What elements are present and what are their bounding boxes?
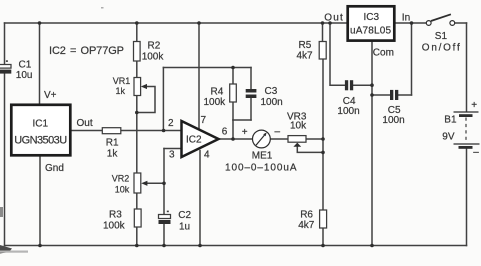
- svg-text:10k: 10k: [290, 121, 307, 132]
- svg-text:100–0–100uA: 100–0–100uA: [225, 163, 297, 174]
- junction V+ on top rail: [38, 21, 42, 25]
- wire left rail lower segment: [4, 74, 6, 246]
- wire R3 to rail: [136, 227, 138, 246]
- svg-text:uA78L05: uA78L05: [350, 25, 391, 36]
- wire In down to C5: [411, 23, 413, 95]
- resistor R2: [134, 41, 165, 63]
- wire battery negative lead: [466, 149, 468, 246]
- wire R6 to rail: [322, 228, 324, 246]
- wire R2 to VR1: [136, 61, 138, 78]
- wire V+ to IC1: [39, 23, 41, 104]
- svg-text:C1: C1: [19, 60, 32, 71]
- wire VR1 to VR2: [136, 96, 138, 174]
- svg-text:IC2: IC2: [186, 135, 202, 146]
- wire Com to C5: [372, 94, 390, 96]
- potentiometer VR3: [287, 112, 307, 147]
- svg-text:1u: 1u: [179, 221, 190, 232]
- svg-text:100n: 100n: [382, 115, 404, 126]
- meter ME1: [225, 127, 297, 174]
- junction Gnd on bottom rail: [38, 244, 42, 248]
- wire IC1 Gnd to rail: [39, 157, 41, 246]
- svg-text:3: 3: [169, 150, 175, 161]
- scan speck top: [101, 7, 104, 9]
- potentiometer VR2: [112, 173, 148, 195]
- wire VR3 wiper drop: [297, 147, 323, 153]
- junction pin7 on top rail: [197, 21, 201, 25]
- svg-text:R3: R3: [109, 210, 122, 221]
- svg-text:100k: 100k: [204, 97, 227, 108]
- wire top supply rail: [5, 22, 348, 24]
- svg-text:R4: R4: [211, 87, 224, 98]
- wire C3 bottom: [250, 98, 252, 120]
- svg-text:4k7: 4k7: [297, 51, 314, 62]
- svg-text:S1: S1: [435, 31, 448, 42]
- wire C5 to In line: [398, 94, 411, 96]
- wire IC3 Com down to rail: [371, 42, 373, 246]
- IC1 UGN3503U: [11, 90, 93, 174]
- potentiometer VR1: [113, 76, 147, 96]
- svg-text:ME1: ME1: [252, 151, 273, 162]
- svg-text:VR1: VR1: [113, 76, 131, 86]
- junction Com on bottom rail: [370, 244, 374, 248]
- resistor R1: [102, 128, 121, 160]
- wire R5 to R6 node line: [322, 59, 324, 210]
- wire switch to battery corner: [455, 22, 467, 24]
- junction R6 on bottom rail: [321, 244, 325, 248]
- wire C2 to rail: [163, 224, 165, 246]
- svg-text:10k: 10k: [115, 185, 130, 195]
- capacitor C1: [0, 60, 32, 82]
- svg-text:R2: R2: [148, 41, 161, 52]
- svg-text:In: In: [402, 12, 410, 23]
- svg-text:9V: 9V: [442, 131, 455, 142]
- wire meter to VR3: [270, 138, 288, 140]
- resistor R5: [297, 40, 327, 62]
- resistor R4: [204, 84, 237, 108]
- capacitor C2: [159, 210, 192, 233]
- junction In line: [410, 21, 414, 25]
- svg-text:1k: 1k: [107, 149, 119, 160]
- regulator IC3 uA78L05: [324, 6, 410, 58]
- svg-text:+: +: [242, 127, 248, 138]
- wire op-amp output to meter: [219, 138, 253, 140]
- junction C4 on top rail: [328, 21, 332, 25]
- wire top to C3: [250, 68, 252, 90]
- wire top to R4: [232, 68, 234, 85]
- wire pin 3 down to C2: [163, 149, 165, 215]
- svg-text:100k: 100k: [142, 52, 165, 63]
- wire VR2 to R3: [136, 193, 138, 209]
- switch S1: [422, 14, 460, 53]
- wire VR2 wiper: [147, 182, 164, 184]
- wire pin 4 to rail: [199, 151, 201, 246]
- wire rail to pin 7: [198, 23, 200, 128]
- svg-text:C3: C3: [265, 86, 278, 97]
- svg-text:UGN3503U: UGN3503U: [14, 135, 67, 147]
- wire C4 to Com line: [353, 84, 372, 86]
- junction R4 on feedback wire: [231, 66, 235, 70]
- scan smudge bottom left corner: [0, 245, 12, 254]
- svg-text:2: 2: [168, 118, 174, 129]
- wire IC3 In to switch: [395, 22, 426, 24]
- scan smudge bottom edge: [0, 251, 28, 253]
- wire VR3 right terminal: [306, 138, 323, 140]
- resistor R6: [298, 210, 326, 232]
- svg-text:R5: R5: [299, 40, 312, 51]
- junction R5 on top rail: [321, 21, 325, 25]
- svg-text:6: 6: [222, 127, 228, 138]
- battery B1: [442, 100, 479, 158]
- scan smudge left edge: [0, 207, 3, 217]
- wire out rail to C4: [330, 23, 345, 85]
- junction R2 chain on top rail: [135, 21, 139, 25]
- junction R3 on bottom rail: [135, 244, 139, 248]
- svg-text:100k: 100k: [103, 221, 126, 232]
- wire rail to R2: [136, 23, 138, 42]
- svg-text:10u: 10u: [16, 70, 33, 81]
- svg-text:VR2: VR2: [112, 174, 130, 184]
- svg-text:IC2 = OP77GP: IC2 = OP77GP: [49, 45, 124, 57]
- wire rail to R5: [322, 23, 324, 42]
- wire feedback top: [163, 67, 251, 69]
- junction pin4 on bottom rail: [198, 244, 202, 248]
- svg-text:On/Off: On/Off: [422, 43, 460, 54]
- svg-text:100n: 100n: [337, 106, 359, 117]
- wire VR1 wiper loop: [137, 87, 155, 113]
- svg-text:–: –: [473, 147, 479, 158]
- svg-text:Out: Out: [77, 118, 93, 129]
- wire feedback bottom connector: [233, 119, 251, 121]
- svg-text:4k7: 4k7: [298, 220, 315, 231]
- junction VR1 wiper: [135, 111, 139, 115]
- wire feedback to output node: [232, 120, 234, 139]
- wire battery positive lead: [466, 23, 468, 112]
- svg-text:1k: 1k: [116, 86, 126, 96]
- resistor R3: [103, 209, 141, 232]
- svg-text:B1: B1: [444, 114, 457, 125]
- svg-text:7: 7: [201, 115, 207, 126]
- svg-text:Com: Com: [373, 48, 394, 59]
- wire IC1 Out to R1: [72, 130, 103, 132]
- svg-text:IC1: IC1: [33, 119, 49, 130]
- svg-text:+: +: [471, 100, 477, 111]
- capacitor C3: [246, 86, 283, 108]
- svg-text:Gnd: Gnd: [45, 163, 64, 174]
- wire R4 bottom: [232, 102, 234, 120]
- svg-text:–: –: [275, 127, 281, 138]
- svg-text:100n: 100n: [261, 97, 283, 108]
- svg-text:Out: Out: [324, 12, 343, 23]
- capacitor C4: [337, 80, 359, 117]
- op-amp IC2: [182, 121, 219, 157]
- wire feedback vertical to pin 2 node: [162, 68, 164, 131]
- wire left rail upper segment: [4, 23, 6, 65]
- junction feedback at output: [231, 137, 235, 141]
- svg-text:R6: R6: [300, 210, 313, 221]
- svg-text:C2: C2: [178, 210, 191, 221]
- junction pin2 node: [162, 129, 166, 133]
- junction C2 on bottom rail: [162, 244, 166, 248]
- junction C5 on Com line: [370, 93, 374, 97]
- junction C4 on Com line: [370, 83, 374, 87]
- junction VR3 right node: [321, 137, 325, 141]
- junction VR3 wiper node: [321, 151, 325, 155]
- capacitor C5: [382, 90, 404, 126]
- svg-text:IC3: IC3: [364, 12, 380, 23]
- svg-text:V+: V+: [44, 90, 57, 101]
- svg-text:4: 4: [204, 150, 210, 161]
- wire bottom ground rail: [5, 245, 467, 247]
- wire R1 to op-amp pin 2: [121, 130, 182, 132]
- svg-text:R1: R1: [106, 138, 119, 149]
- junction VR2 wiper node: [162, 182, 166, 186]
- wire pin 3: [164, 148, 182, 150]
